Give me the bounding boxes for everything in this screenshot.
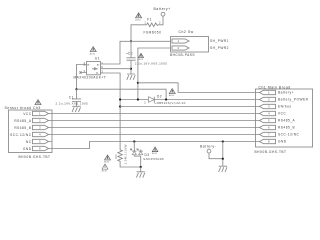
svg-text:2: 2 — [39, 119, 41, 123]
svg-text:4: 4 — [39, 133, 41, 137]
svg-text:D2: D2 — [157, 95, 162, 99]
svg-text:2: 2 — [144, 100, 146, 104]
svg-text:GND: GND — [278, 140, 287, 144]
op-amp U1 MAX40200 — [74, 57, 107, 80]
wire fuse to node — [131, 25, 147, 42]
svg-text:8: 8 — [268, 140, 270, 144]
svg-text:2.2u,16V,X6S,1005: 2.2u,16V,X6S,1005 — [56, 101, 89, 105]
resistor R1 — [114, 144, 141, 167]
capacitor C2 — [126, 41, 167, 74]
svg-text:7: 7 — [268, 133, 270, 137]
svg-text:Ch2 Sw: Ch2 Sw — [179, 30, 194, 34]
capacitor C1 — [56, 89, 89, 106]
svg-text:SH_PWR1: SH_PWR1 — [210, 39, 229, 43]
svg-text:Sensor broad Ch3: Sensor broad Ch3 — [5, 106, 41, 110]
svg-text:VCC: VCC — [278, 112, 286, 116]
port Battery- — [200, 145, 223, 159]
svg-text:1: 1 — [39, 112, 41, 116]
node D3 gnd-line junction — [133, 140, 135, 142]
svg-text:ADM: ADM — [152, 152, 157, 155]
svg-text:SH_PWR2: SH_PWR2 — [210, 46, 229, 50]
svg-text:1: 1 — [178, 39, 180, 43]
svg-text:EN/bus: EN/bus — [278, 105, 291, 109]
wire bus to Ch2 pin1 and down to U1 OUT — [101, 41, 171, 64]
svg-text:R1: R1 — [114, 154, 118, 159]
svg-text:ESDP0502B: ESDP0502B — [144, 157, 164, 161]
svg-text:ADM: ADM — [138, 58, 143, 61]
wire EN to Ch1 pin3 — [120, 106, 255, 108]
node fuse output junction — [130, 40, 132, 42]
ground D3/R1 — [136, 167, 145, 178]
svg-text:Battery-: Battery- — [200, 145, 216, 149]
svg-text:FSMD050: FSMD050 — [144, 31, 162, 35]
svg-text:Battery+: Battery+ — [278, 91, 294, 95]
svg-text:6: 6 — [39, 147, 41, 151]
svg-text:RS485_B: RS485_B — [14, 126, 31, 130]
svg-text:BHC0B-PASS: BHC0B-PASS — [170, 53, 195, 57]
svg-text:1: 1 — [144, 20, 146, 24]
svg-text:4: 4 — [268, 112, 270, 116]
warning triangle near F1 — [135, 13, 141, 22]
svg-text:MAX40200AUK+T: MAX40200AUK+T — [74, 76, 107, 80]
warning triangle near D2 — [169, 89, 175, 98]
warning triangle pair left of R1 — [104, 155, 110, 164]
svg-text:U1: U1 — [95, 57, 100, 61]
connector Sensor broad Ch3 — [5, 106, 53, 159]
ground Battery- — [219, 166, 228, 172]
wire GND bus stepped — [52, 142, 256, 149]
svg-text:2: 2 — [159, 20, 161, 24]
node Battery- top junction — [222, 140, 224, 142]
diode D2 — [120, 95, 255, 105]
svg-text:3: 3 — [39, 126, 41, 130]
node Battery- mid junction — [222, 158, 224, 160]
svg-text:VCC: VCC — [23, 112, 31, 116]
wire U1 pin5 to gnd node — [101, 68, 132, 70]
svg-text:ADM: ADM — [169, 94, 174, 97]
node D2 anode/Ch2 junction — [137, 98, 139, 100]
wire Battery- vertical — [222, 142, 224, 167]
ground C2 — [127, 74, 135, 80]
svg-text:BHX0B-GHS-TBT: BHX0B-GHS-TBT — [255, 150, 287, 154]
svg-text:5: 5 — [268, 119, 270, 123]
svg-text:1: 1 — [268, 91, 270, 95]
svg-text:ADM: ADM — [104, 161, 109, 164]
wire branch to Ch1 pin1 — [138, 83, 256, 93]
connector Ch2 Sw — [170, 30, 229, 57]
diode D3 ESD — [130, 142, 164, 168]
svg-text:GND: GND — [23, 147, 32, 151]
svg-text:ADM: ADM — [90, 52, 95, 55]
svg-text:5: 5 — [39, 140, 41, 144]
warning triangle above left connector — [35, 100, 41, 105]
svg-text:NC: NC — [26, 140, 32, 144]
wire Battery+ vertical — [159, 16, 164, 25]
svg-text:2.2u,16V,X6S,1005: 2.2u,16V,X6S,1005 — [135, 62, 168, 66]
svg-text:SCC-12/NC: SCC-12/NC — [10, 133, 32, 137]
port Battery+ — [154, 7, 171, 16]
wire VCC bus — [52, 113, 256, 115]
fuse F1 — [144, 18, 162, 35]
connector Ch1 Main Broad — [255, 86, 313, 154]
warning triangle near D3 — [152, 147, 158, 155]
warning triangle near C2 — [138, 53, 144, 61]
wire OUT bus — [77, 89, 167, 99]
wire U1 pin2 stub — [80, 71, 87, 73]
svg-text:SCC-12/NC: SCC-12/NC — [278, 133, 300, 137]
node D2 anode/EN junction — [119, 98, 121, 100]
warning triangle above U1 — [90, 47, 96, 56]
svg-text:LRB520S(V)xM-40: LRB520S(V)xM-40 — [155, 101, 186, 105]
wire U1 EN down (long vertical) — [101, 73, 121, 150]
svg-text:3: 3 — [268, 105, 270, 109]
svg-text:ADM: ADM — [135, 18, 140, 21]
node branch junction — [137, 82, 139, 84]
node R1/D3 gnd junction — [140, 166, 142, 168]
wire SCC-12 bus — [52, 134, 256, 136]
svg-text:2: 2 — [268, 98, 270, 102]
svg-text:Battery+: Battery+ — [154, 7, 171, 11]
svg-text:BHX0B-GHS-TBT: BHX0B-GHS-TBT — [19, 155, 51, 159]
svg-text:2: 2 — [178, 46, 180, 50]
wire Ch2 pin2 vertical — [138, 48, 171, 100]
node C2/U1 gnd junction — [130, 68, 132, 70]
svg-text:1.0M,1/16W: 1.0M,1/16W — [124, 144, 128, 164]
svg-text:6: 6 — [268, 126, 270, 130]
wire RS485_B bus — [52, 127, 256, 129]
svg-text:RS485_A: RS485_A — [14, 119, 32, 123]
node D2 cathode junction — [165, 98, 167, 100]
svg-text:RS485_A: RS485_A — [278, 119, 296, 123]
svg-text:RS485_B: RS485_B — [278, 126, 295, 130]
ground C1 — [72, 106, 81, 112]
wire RS485_A bus — [52, 120, 256, 122]
wire U1 IN left — [77, 65, 87, 90]
svg-text:Battery_POWER: Battery_POWER — [278, 98, 309, 102]
node U1 IN junction — [75, 88, 77, 90]
svg-text:F1: F1 — [147, 18, 152, 22]
node EN/pin3 junction — [119, 105, 121, 107]
svg-text:C2: C2 — [128, 52, 133, 56]
svg-text:ADM: ADM — [102, 170, 107, 173]
